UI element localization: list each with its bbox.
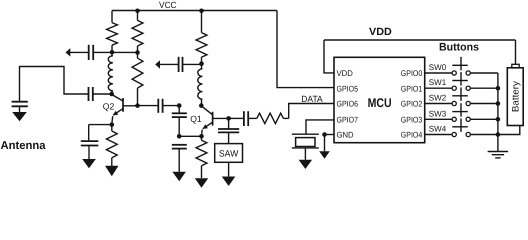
label DATA	[301, 94, 322, 104]
filter SAW box	[215, 144, 243, 163]
label Q1	[190, 114, 202, 124]
svg-text:GPIO1: GPIO1	[401, 84, 423, 93]
wire C2 to node	[93, 93, 112, 95]
svg-text:GND: GND	[337, 131, 354, 140]
node junction Q2 base	[135, 103, 140, 108]
svg-text:SAW: SAW	[219, 149, 239, 159]
wire VDD rail	[324, 39, 516, 41]
ground symbol earth	[488, 152, 509, 158]
capacitor C9 series	[244, 111, 248, 126]
wire GPIO7 to crystal	[306, 120, 334, 134]
label VDD	[369, 26, 392, 38]
svg-text:DATA: DATA	[301, 94, 322, 104]
ground arrow R5	[195, 178, 208, 188]
svg-text:GPIO2: GPIO2	[401, 100, 423, 109]
wire base node to C9	[229, 117, 244, 119]
svg-text:SW1: SW1	[429, 78, 447, 87]
ground arrow R4	[105, 166, 119, 177]
resistor R2 bias upper	[132, 11, 143, 53]
inductor L2	[198, 64, 203, 106]
svg-text:GPIO5: GPIO5	[337, 84, 359, 93]
svg-text:MCU: MCU	[368, 96, 392, 110]
node junction R2-R3	[135, 50, 140, 55]
wire node to C8	[183, 63, 202, 65]
resistor R6 series	[248, 113, 289, 123]
node junction Q1 collector	[199, 103, 204, 108]
inductor L1	[108, 52, 113, 94]
label MCU	[368, 96, 392, 110]
wire C1 to ground arrow	[70, 51, 89, 53]
wire VDD to MCU VDD pin	[324, 40, 334, 73]
wire R1 node to R2 node	[112, 51, 138, 53]
resistor R4 Q2 emitter	[106, 125, 117, 167]
node junction VCC-R2	[135, 9, 140, 14]
wire C8 to ground arrow	[160, 63, 179, 65]
ground arrow MCU GND	[319, 151, 330, 159]
MCU right pin labels	[401, 69, 423, 140]
node junction R7-L2-C8	[199, 61, 204, 66]
svg-text:GPIO3: GPIO3	[401, 115, 423, 124]
ground left arrow 2	[155, 60, 160, 68]
wire C6 node to Q1 emitter node	[179, 135, 201, 137]
resistor R3 bias lower	[132, 53, 143, 106]
MCU box	[334, 57, 425, 142]
switch SW0	[425, 57, 498, 75]
wire emitter to C4 leg	[89, 125, 112, 141]
ground arrow crystal	[299, 160, 313, 169]
junction dots ground bus	[496, 86, 501, 137]
svg-text:SW4: SW4	[429, 125, 447, 134]
switch SW3	[425, 103, 498, 121]
node junction VCC-R7	[199, 9, 204, 14]
wire DATA to GPIO6	[289, 104, 334, 119]
wire Q2 base node to C5	[138, 105, 159, 107]
capacitor C7 to ground	[172, 145, 187, 172]
switch SW1	[425, 72, 498, 90]
ground arrow C7	[172, 172, 186, 182]
node junction Q1 emitter	[199, 134, 204, 139]
wire ground bus	[497, 73, 499, 152]
svg-text:SW2: SW2	[429, 94, 447, 103]
capacitor C1 bypass	[89, 45, 94, 60]
svg-text:VCC: VCC	[159, 0, 177, 10]
wire antenna loop	[20, 67, 89, 102]
MCU left pin labels	[337, 69, 359, 140]
capacitor C6 feedback	[172, 106, 187, 137]
wire MCU GND down	[322, 132, 334, 151]
label Antenna	[1, 140, 47, 152]
svg-text:SW3: SW3	[429, 109, 447, 118]
transistor Q1	[202, 106, 229, 136]
wire node to C1	[93, 51, 112, 53]
node junction antenna-L1-Q2 collector	[109, 92, 114, 97]
ground arrow SAW	[222, 162, 236, 186]
battery BT1	[507, 64, 523, 125]
capacitor C10 to SAW	[218, 118, 239, 143]
svg-text:SW0: SW0	[429, 63, 447, 72]
wire VCC to GPIO5	[277, 11, 334, 88]
svg-text:GPIO6: GPIO6	[337, 100, 359, 109]
capacitor C2 coupling	[89, 87, 93, 101]
svg-text:Q1: Q1	[190, 114, 202, 124]
svg-text:VDD: VDD	[337, 69, 353, 78]
wire VCC rail	[112, 10, 277, 12]
svg-text:GPIO4: GPIO4	[401, 131, 423, 140]
svg-text:GPIO0: GPIO0	[401, 69, 423, 78]
switch SW4	[425, 118, 498, 136]
transistor Q2	[112, 95, 138, 124]
resistor R7 Q1 collector load	[196, 11, 207, 64]
label Q2	[103, 101, 115, 111]
svg-text:GPIO7: GPIO7	[337, 115, 359, 124]
ground arrow antenna	[12, 112, 27, 121]
label VCC	[159, 0, 177, 10]
ground left arrow 1	[66, 48, 71, 57]
svg-text:Q2: Q2	[103, 101, 115, 111]
node junction C5-C6	[177, 103, 182, 108]
ground arrow C4	[82, 159, 96, 168]
switch SW2	[425, 87, 498, 105]
svg-text:VDD: VDD	[369, 26, 392, 38]
svg-text:Antenna: Antenna	[1, 140, 47, 152]
capacitor C8 bypass	[179, 57, 183, 72]
svg-text:Battery: Battery	[510, 81, 521, 112]
wire VDD rail to battery	[515, 40, 517, 64]
node junction Q2 emitter	[110, 122, 115, 127]
node junction Q1 base	[226, 116, 231, 121]
capacitor C3 antenna	[12, 102, 28, 113]
label Buttons	[439, 41, 479, 53]
resistor R1 collector load upper	[107, 11, 118, 53]
svg-text:Buttons: Buttons	[439, 41, 479, 53]
node junction R1-C1-L1	[110, 50, 115, 55]
wire C5 to node	[163, 105, 180, 107]
capacitor C5 interstage	[158, 99, 162, 113]
resistor R5 Q1 emitter	[196, 136, 207, 178]
wire battery to ground bus	[498, 126, 520, 135]
node junction C6-C7	[177, 134, 182, 139]
capacitor C4 emitter bypass	[81, 141, 99, 160]
crystal Y1	[292, 134, 319, 160]
